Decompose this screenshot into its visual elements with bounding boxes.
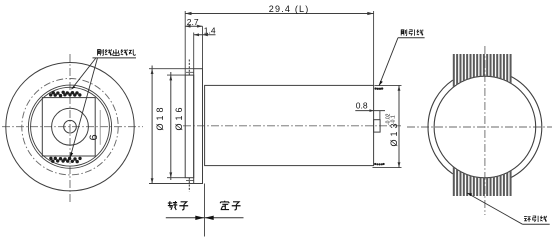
inscribed square — [42, 98, 95, 156]
inner circle — [434, 76, 536, 178]
stator body Ø13 — [205, 85, 374, 165]
brush wire outlet holes (top cluster) — [49, 91, 82, 98]
horizontal centerline — [183, 125, 403, 127]
svg-text:6: 6 — [88, 134, 100, 140]
label 转子 with arrow — [168, 201, 188, 210]
dim 1.4 — [194, 34, 216, 36]
label 刷引线 — [401, 29, 423, 35]
middle circle — [52, 108, 89, 145]
ext line 2.7 right — [202, 26, 204, 68]
leader to bottom holes — [70, 58, 97, 157]
dim Ø18 — [151, 66, 153, 184]
svg-text:-0.1: -0.1 — [391, 115, 397, 124]
Ø18 flange disc — [194, 69, 203, 184]
svg-text:1.4: 1.4 — [204, 26, 216, 36]
dim Ø13 with tolerance — [375, 84, 402, 86]
ext line right — [373, 11, 375, 85]
outer circle (flange OD) — [6, 63, 134, 191]
bolt-circle (dash-dot) — [22, 79, 118, 175]
rotor/stator divider extended — [204, 184, 206, 237]
circle R41.6 — [28, 85, 111, 168]
label 刷线出线孔 — [97, 49, 135, 56]
leader — [379, 38, 398, 86]
brush lead wires top right — [374, 87, 383, 90]
dim Ø16 — [170, 72, 172, 180]
outer circle (left arc) — [428, 80, 453, 174]
label underline — [93, 57, 137, 59]
hidden screw top — [188, 60, 190, 76]
ring wires bottom right — [374, 163, 385, 166]
vertical centerline — [484, 46, 486, 215]
svg-text:Ø16: Ø16 — [174, 104, 184, 130]
dim 0.8 — [355, 110, 385, 112]
ring lead wire bundle bottom — [454, 167, 511, 196]
circle R39.4 — [31, 87, 110, 166]
ext line left — [184, 11, 186, 75]
svg-text:0.8: 0.8 — [356, 100, 368, 110]
dim 2.7 — [185, 25, 202, 27]
Ø16 disc — [185, 75, 194, 178]
outer circle (right arc) — [511, 76, 542, 178]
svg-text:Ø18: Ø18 — [155, 104, 165, 130]
ext line 1.4 left — [193, 33, 195, 69]
hidden screw bottom — [188, 178, 190, 192]
label 定子 with arrow — [220, 201, 240, 210]
vertical centerline — [69, 54, 71, 203]
ring lead wire bundle top — [454, 54, 511, 87]
dim 29.4 (L) — [185, 13, 373, 15]
leader — [467, 193, 522, 224]
label 环引线 — [524, 216, 547, 222]
svg-text:29.4 (L): 29.4 (L) — [269, 4, 310, 14]
end boss — [374, 120, 381, 132]
leader to top holes — [72, 58, 97, 89]
horizontal centerline — [2, 126, 143, 128]
svg-text:2.7: 2.7 — [187, 17, 199, 27]
horizontal centerline — [407, 126, 552, 128]
dim line 6 — [99, 110, 101, 145]
center hole — [64, 120, 77, 133]
brush wire outlet holes (bottom cluster) — [49, 157, 82, 164]
